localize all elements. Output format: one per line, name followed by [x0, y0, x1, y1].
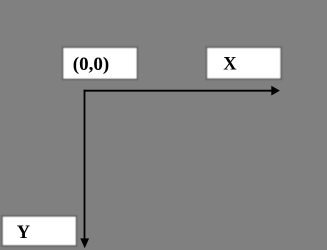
wire: X axis line	[84, 90, 272, 92]
arrowhead Y axis	[80, 238, 89, 248]
svg-text:(0,0): (0,0)	[73, 54, 109, 75]
arrowhead X axis	[271, 86, 280, 96]
label box Y	[2, 216, 77, 246]
label box (0,0)	[63, 47, 138, 79]
svg-text:Y: Y	[17, 223, 31, 243]
svg-text:X: X	[223, 55, 237, 75]
label box X	[206, 47, 281, 79]
wire: Y axis line	[84, 90, 86, 239]
